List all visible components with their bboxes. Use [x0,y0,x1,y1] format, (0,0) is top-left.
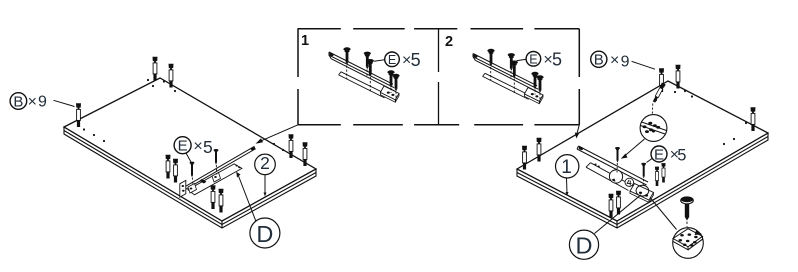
svg-text:2: 2 [260,153,270,173]
screw E3 (right panel) [615,147,620,163]
detail circle 2 (bracket holes) [673,228,704,259]
svg-text:E: E [529,52,537,66]
rail D (left) end cap left [180,180,186,197]
rail D (right) tip notch [578,146,583,151]
svg-text:×: × [610,52,619,69]
screw B4 (right corner upper) [289,134,294,158]
svg-text:1: 1 [561,157,572,178]
screw B2 (top corner left) [153,57,158,81]
screw B15 (near label 1) [537,138,542,162]
rail D (left) tip notch [250,146,255,151]
label E x5 (cell 2) [517,49,563,69]
label circled 2 [255,153,276,196]
screw B18 (right of rail) [655,167,659,186]
panel 2 surface hole dots [83,79,284,151]
rail D (right panel) channel bar [577,146,648,185]
connector from box corner to right rail [575,125,580,139]
rail D (right) mounting plate [586,163,633,191]
screw E1 (left panel) [190,162,195,178]
svg-text:B: B [13,93,23,110]
svg-text:2: 2 [445,34,453,50]
rail D (left) screw tabs [188,173,221,194]
screw B12 (tilted, being inserted) [652,83,666,103]
svg-text:B: B [594,52,604,69]
rail D (right) small oval [625,178,634,186]
svg-text:1: 1 [301,33,309,49]
rail D (left) plate holes [200,165,241,184]
leader from rail bracket to detail circle 2 [650,198,677,230]
screw B12 guide dashes to detail [651,104,654,115]
rail D (right) roller ring 1 [609,170,622,183]
cell screw E3 [367,59,374,77]
rail D (right) roller ring 2 [636,185,649,196]
rail assembly with screws (cell 2 copy) [473,49,544,104]
screw B20 above detail circle 2 [681,196,694,227]
svg-text:E: E [178,138,188,155]
cell rail tip notch [329,52,334,56]
svg-text:5: 5 [552,49,562,69]
label D (right) [569,195,641,259]
screw B13 (right corner) [751,107,756,131]
screw B1 (left, pointed by label) [76,103,81,127]
rail D (right) end bracket [630,184,654,201]
dashed box top border [298,28,580,30]
svg-text:×: × [28,93,37,110]
svg-text:9: 9 [621,54,630,71]
svg-text:×: × [193,138,202,155]
screw B10 (top corner) [659,68,664,92]
svg-text:D: D [576,232,593,258]
screw B17 (below rail) [616,191,621,215]
detail circle 1 (hole pattern) [640,115,667,142]
panel 1 surface hole dots [655,90,747,145]
cell screw E5 [392,74,399,92]
svg-text:E: E [654,146,664,163]
cell rail bar [329,52,396,92]
screw B5 (right corner lower) [303,142,308,166]
svg-text:E: E [388,53,396,67]
svg-text:9: 9 [38,94,47,111]
panel 1 slab thickness edges [517,133,768,228]
svg-text:D: D [256,221,273,247]
dashed box left border [297,29,299,125]
screw B9 (below rail) [219,189,224,213]
screw B16 (below rail) [609,194,614,218]
label E x5 (left) [174,137,213,162]
screw E4 (right panel) [641,163,646,179]
label D (left) [236,172,280,248]
label E x5 (right) [647,146,687,164]
svg-text:5: 5 [677,146,686,164]
cell screw E1 [343,47,350,65]
dashed box right border [578,29,580,125]
svg-text:5: 5 [411,50,421,70]
cell screw E2 [364,52,371,70]
screw B11 (top corner) [676,65,681,89]
screw B6 (left of rail) [166,155,171,179]
screw B8 (below rail) [211,185,216,209]
screw E1 guide dashes [191,178,194,186]
label circled 1 [556,155,579,196]
dashed box bottom border [298,124,579,126]
cell rail end bracket [380,86,399,100]
screw E2 (left panel) [214,149,219,165]
dashed box divider [438,29,440,125]
label B x9 (right) [591,51,655,70]
leader from detail circle 1 to rail ring [621,139,645,159]
connector from box corner to left rail [256,125,299,144]
panel 2 slab thickness edges [64,127,316,228]
svg-text:5: 5 [203,137,213,157]
label B x9 (left) [10,93,74,111]
screw E2 guide dashes [215,165,218,175]
panel 1 top face [517,81,768,221]
rail D (left panel) channel bar [182,146,255,190]
cell rail plate [339,72,387,98]
screw B3 (top corner right) [169,64,174,88]
screw B7 (left of rail) [173,159,178,183]
panel 2 top face [64,78,316,221]
screw B19 (right of rail) [661,163,665,182]
label E x5 (cell 1) [374,50,421,70]
screw B14 (near label 1) [522,146,527,170]
cell screw E4 [387,70,394,88]
rail D (left) mounting plate [188,164,242,195]
